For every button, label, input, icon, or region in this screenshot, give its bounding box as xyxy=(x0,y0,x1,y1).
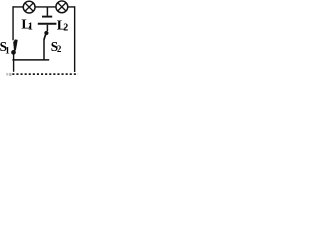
svg-text:2: 2 xyxy=(63,22,68,33)
svg-text:1: 1 xyxy=(5,46,10,56)
svg-text:2: 2 xyxy=(57,44,62,54)
svg-text:1: 1 xyxy=(28,22,33,33)
